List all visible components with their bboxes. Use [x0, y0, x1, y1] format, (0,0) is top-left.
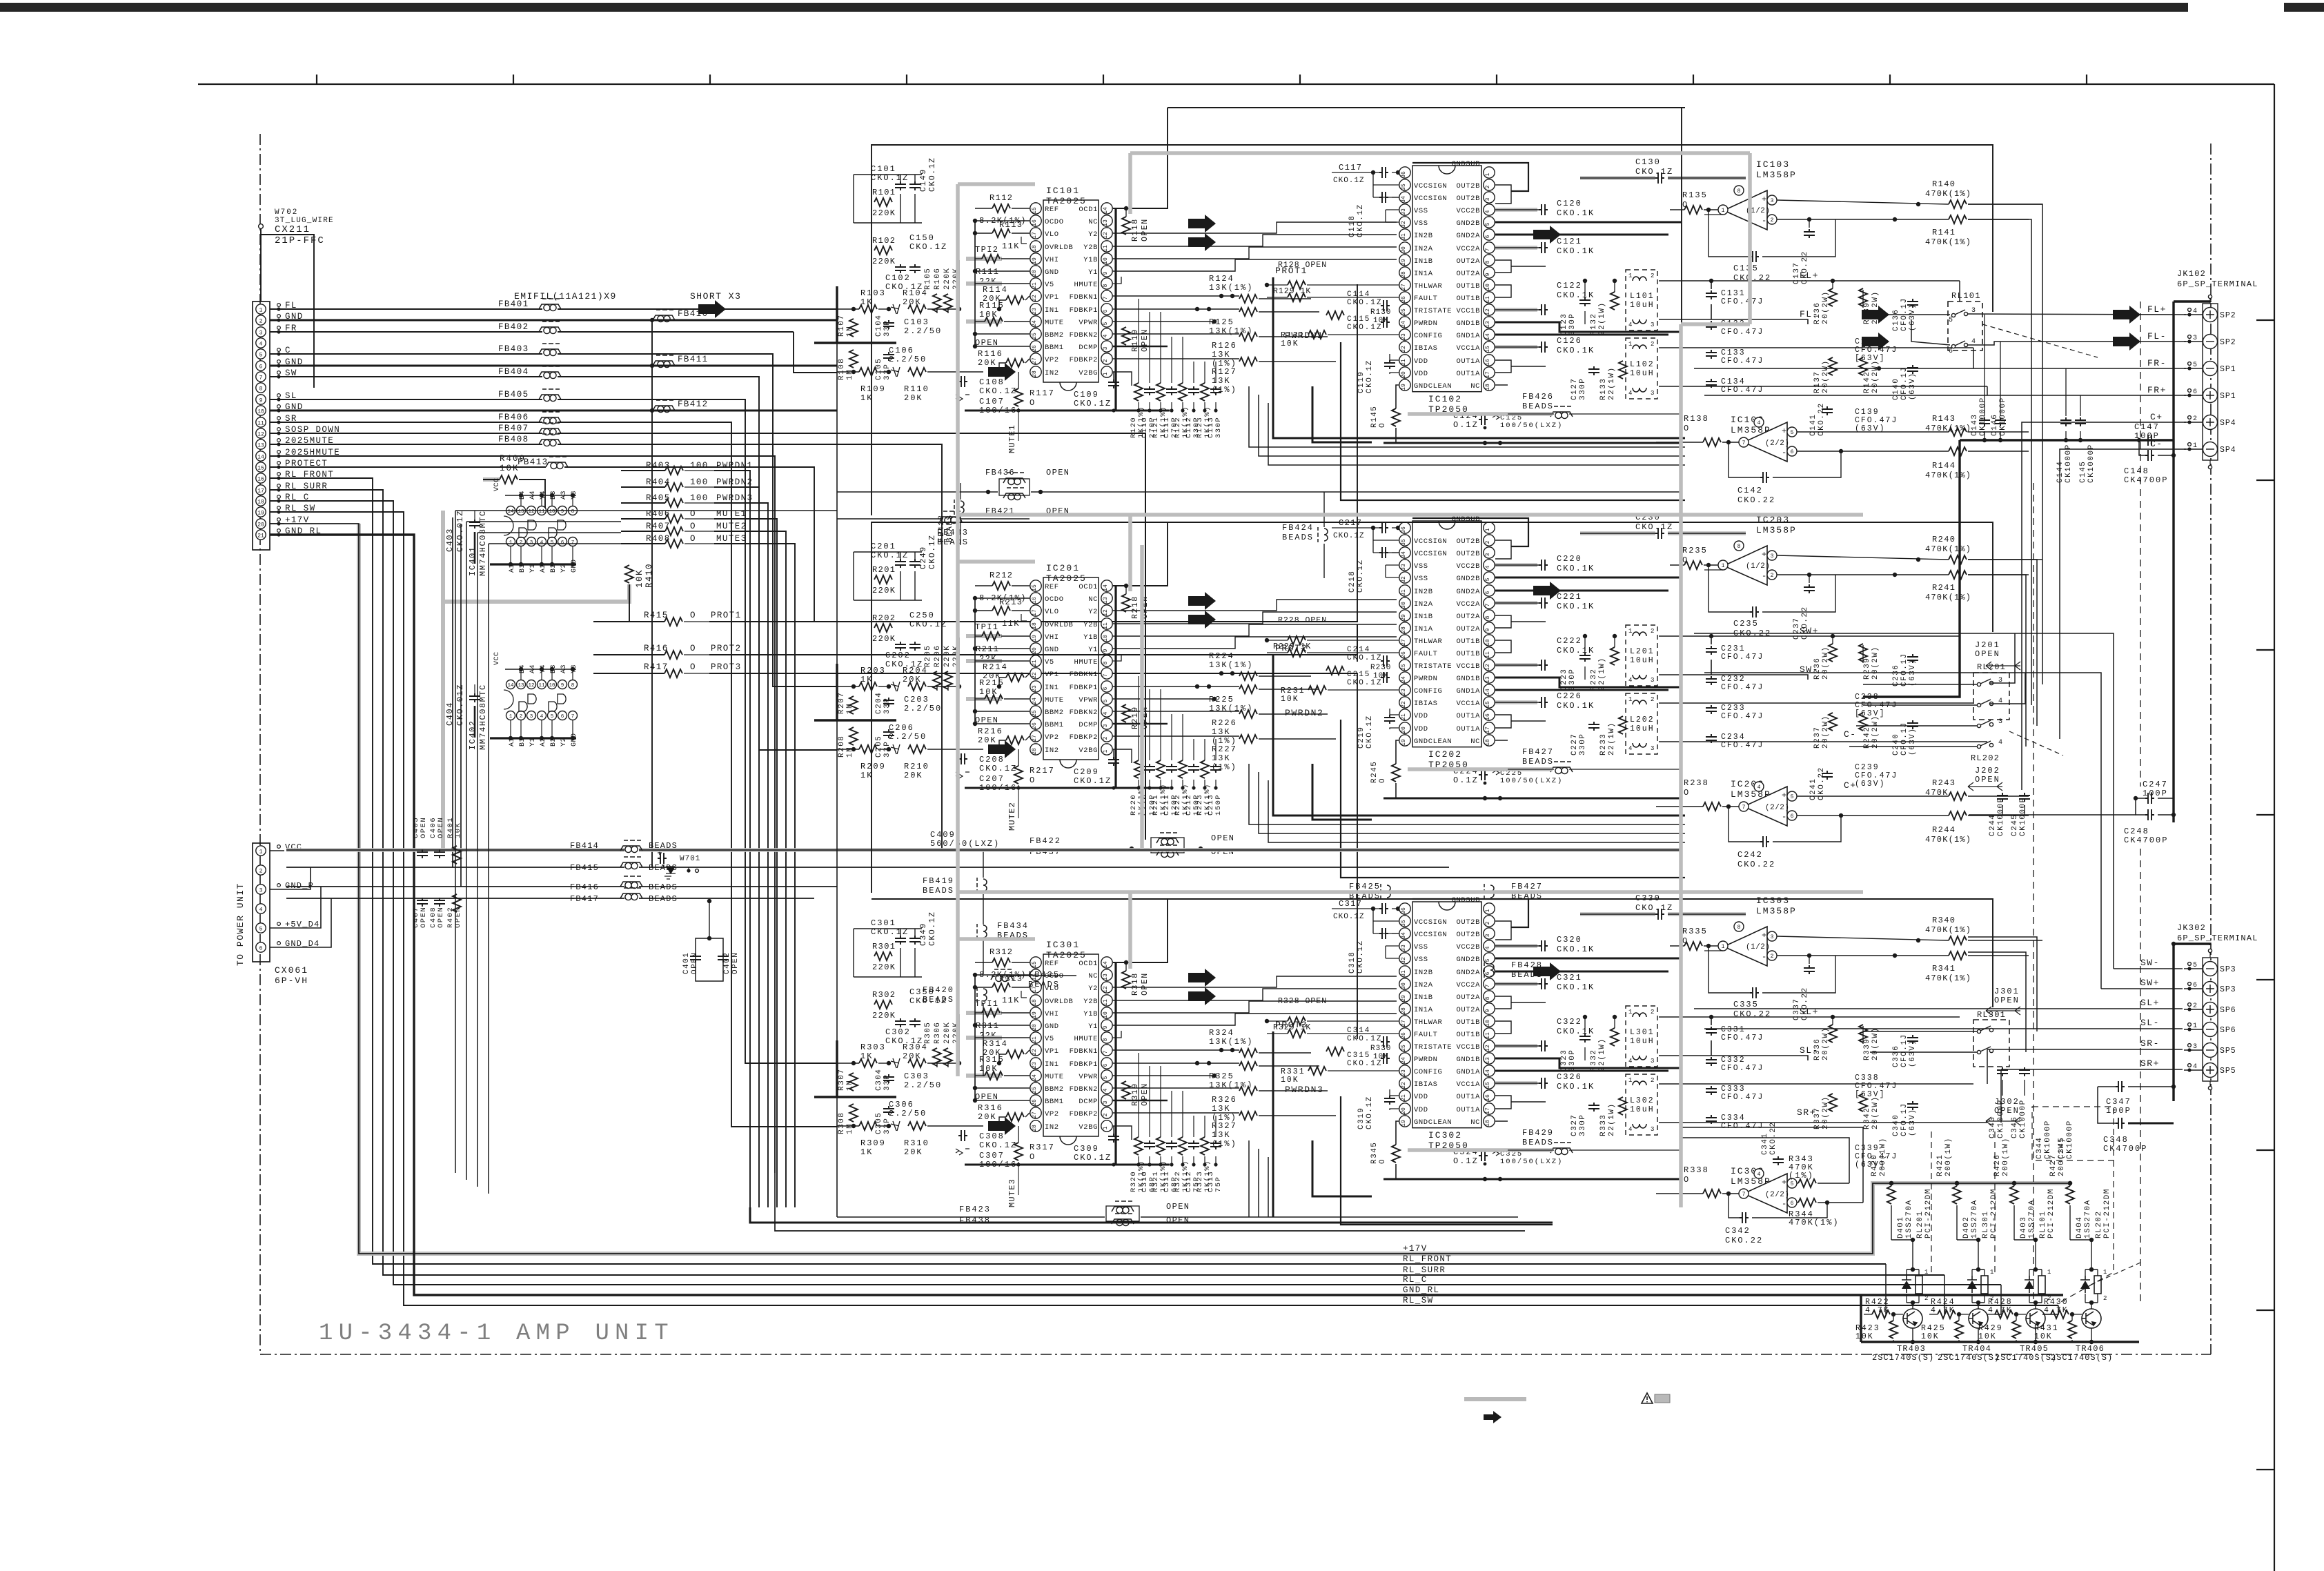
capacitor C320 CKO.1K	[1495, 944, 1537, 948]
svg-text:17: 17	[257, 488, 264, 495]
svg-text:CFO.47J: CFO.47J	[1721, 357, 1764, 366]
svg-text:R403: R403	[646, 461, 671, 471]
ladder C210 120P	[1144, 764, 1155, 773]
OUT2A join 1	[1495, 260, 1511, 273]
IC302 pin 17	[1484, 1103, 1495, 1114]
svg-text:20K: 20K	[903, 1051, 922, 1061]
svg-text:CKO.1Z: CKO.1Z	[979, 386, 1017, 396]
IC102 pin 36	[1399, 167, 1410, 178]
capacitor C322 CKO.1K	[1495, 1044, 1537, 1048]
svg-text:R415: R415	[644, 611, 669, 620]
ladder R123 1K(1%)	[1201, 383, 1209, 401]
IC301 pin 1 V2BG	[1101, 1120, 1112, 1132]
capacitor C125 100/50(LXZ)	[1493, 413, 1499, 419]
IC202 pin 35	[1399, 535, 1410, 546]
CX211 pin 14 stub	[277, 451, 281, 454]
IC102 pin 31	[1399, 229, 1410, 240]
svg-text:MUTE: MUTE	[1045, 319, 1064, 327]
svg-text:220K: 220K	[943, 1022, 952, 1044]
IC201 pin 26 BBM1	[1030, 718, 1041, 729]
svg-text:20(2W): 20(2W)	[1871, 1096, 1880, 1129]
svg-text:15: 15	[1485, 701, 1491, 708]
svg-text:FB406: FB406	[498, 413, 529, 422]
svg-text:NC: NC	[1470, 738, 1480, 746]
cell 4 top join	[2085, 1269, 2098, 1270]
svg-text:V5: V5	[1045, 281, 1054, 289]
capacitor C334 CFO.47J	[1706, 1115, 1717, 1124]
resistor R144 470K	[1949, 447, 1967, 455]
resistor R117 O	[1014, 388, 1023, 406]
IC101 pin 26 BBM1	[1030, 341, 1041, 352]
ferrite bead FB401	[539, 304, 561, 309]
svg-text:IN1: IN1	[1045, 1060, 1059, 1069]
svg-text:1: 1	[1485, 528, 1491, 531]
svg-text:IN1B: IN1B	[1414, 257, 1433, 266]
cell 1 top join	[1907, 1269, 1919, 1270]
svg-text:CKO.22: CKO.22	[1737, 495, 1775, 505]
svg-text:22: 22	[1401, 701, 1407, 708]
svg-text:C121: C121	[1557, 237, 1582, 246]
svg-text:36: 36	[1401, 526, 1407, 533]
svg-text:THLWAR: THLWAR	[1414, 282, 1443, 290]
wire Y2B 3	[1113, 989, 1397, 1000]
CX061 pin bends	[284, 867, 311, 889]
svg-text:1: 1	[1628, 341, 1632, 348]
svg-text:12: 12	[528, 509, 534, 515]
svg-text:FL-: FL-	[1800, 309, 1819, 319]
svg-text:560/50(LXZ): 560/50(LXZ)	[930, 839, 1000, 849]
svg-text:O: O	[690, 611, 696, 620]
svg-text:2: 2	[259, 869, 263, 875]
IC201 pin 4 FDBKN2	[1101, 706, 1112, 717]
svg-text:8: 8	[1485, 615, 1491, 619]
svg-text:C122: C122	[1557, 281, 1582, 290]
wire V2BG 2	[1113, 749, 1132, 763]
svg-text:CKO.1K: CKO.1K	[1557, 208, 1595, 218]
svg-text:OUT1A: OUT1A	[1456, 370, 1480, 378]
CX211 pin 19 stub	[277, 506, 281, 510]
PWRDN1 drop	[1341, 342, 1685, 500]
svg-text:21: 21	[1401, 713, 1407, 720]
svg-text:L202: L202	[1630, 715, 1655, 724]
svg-text:1: 1	[1924, 1269, 1928, 1276]
svg-text:BBM2: BBM2	[1045, 331, 1064, 339]
IC301 pin 13 NC	[1101, 969, 1112, 980]
wire C248 row left	[1969, 814, 2136, 816]
svg-text:36: 36	[1401, 907, 1407, 914]
svg-text:2SC1740S(S): 2SC1740S(S)	[1995, 1353, 2057, 1363]
svg-text:R303: R303	[860, 1043, 886, 1052]
wire MUTE2 riser	[714, 531, 786, 1207]
net FR- wire	[1659, 347, 1973, 348]
CX211 pin 17 circle	[256, 485, 266, 495]
svg-text:17: 17	[1485, 727, 1491, 733]
wire GND2B 2 thick	[1495, 577, 1682, 579]
svg-text:R137: R137	[1813, 371, 1822, 393]
svg-text:27: 27	[1032, 357, 1038, 364]
svg-text:13K: 13K	[1212, 753, 1231, 763]
svg-text:CFO.47J: CFO.47J	[1721, 1064, 1764, 1073]
OCD1 rail drop 1	[1114, 208, 1116, 411]
svg-text:2: 2	[1103, 359, 1109, 362]
svg-text:100/50(LXZ): 100/50(LXZ)	[1500, 422, 1563, 430]
svg-text:CKO.22: CKO.22	[1733, 273, 1771, 283]
IC202 pin 5	[1484, 572, 1495, 583]
opamp feed vertical a	[1968, 204, 2042, 684]
svg-text:R145: R145	[1370, 406, 1379, 428]
MUTE3 bundle to right thin	[775, 1173, 1525, 1231]
wire GND row10	[270, 410, 652, 412]
svg-text:Y1: Y1	[1088, 268, 1098, 277]
IC101 pin 8 HMUTE	[1101, 278, 1112, 289]
svg-text:R201: R201	[872, 565, 896, 575]
svg-text:SP1: SP1	[2220, 392, 2236, 401]
ladder C112 330P	[1188, 386, 1199, 395]
wire GND2B 1 thick	[1495, 221, 1682, 224]
svg-text:R421: R421	[1936, 1154, 1944, 1176]
svg-text:SP5: SP5	[2220, 1067, 2236, 1076]
wire FR row	[270, 331, 542, 333]
capacitor C122 CKO.1K	[1495, 308, 1537, 312]
IC202 pin 12	[1484, 660, 1495, 671]
ladder R121 1K(1%)	[1156, 383, 1165, 401]
IC102 pin 34	[1399, 192, 1410, 203]
IC102 pin 2	[1484, 179, 1495, 190]
wire GND row2	[270, 319, 652, 322]
svg-text:C209: C209	[1074, 767, 1099, 777]
svg-text:13K(1%): 13K(1%)	[1209, 660, 1253, 670]
opamp feed vertical d block2	[1968, 575, 2026, 747]
svg-text:21: 21	[1401, 359, 1407, 366]
IC202 pin 36	[1399, 522, 1410, 533]
IC201 pin 20 GND	[1030, 643, 1041, 654]
IC101 pin 9 Y1	[1101, 266, 1112, 277]
svg-text:R205: R205	[924, 645, 932, 667]
capacitor C120 CKO.1K	[1495, 208, 1537, 212]
IC302 pin 32	[1399, 953, 1410, 964]
svg-text:R124: R124	[1209, 274, 1234, 284]
wire SOSP_DOWN row	[270, 433, 542, 434]
IC202 pin 16	[1484, 709, 1495, 720]
svg-text:MUTE3: MUTE3	[716, 534, 747, 544]
legend gray line	[1464, 1397, 1526, 1401]
svg-text:25: 25	[1401, 308, 1407, 315]
resistor R217 O	[1014, 766, 1023, 784]
svg-text:VCC1A: VCC1A	[1456, 344, 1480, 353]
svg-text:12: 12	[528, 683, 534, 689]
svg-text:13K: 13K	[1212, 376, 1231, 386]
svg-text:+: +	[1782, 1178, 1786, 1187]
svg-text:18: 18	[1485, 739, 1491, 746]
ferrite bead FB412	[653, 406, 675, 411]
IC102 pin 20	[1399, 367, 1410, 378]
svg-text:R407: R407	[646, 522, 671, 531]
svg-text:CKO.01Z: CKO.01Z	[455, 510, 465, 552]
svg-text:17: 17	[1032, 609, 1038, 616]
svg-text:100: 100	[690, 477, 709, 487]
svg-text:8: 8	[1103, 661, 1109, 664]
svg-text:FB405: FB405	[498, 390, 529, 399]
svg-text:R317: R317	[1030, 1143, 1055, 1152]
svg-text:18: 18	[1485, 1120, 1491, 1127]
diag dashed RL202	[2091, 1263, 2140, 1285]
relay RL301 box	[1973, 1020, 2009, 1067]
IC202 pin 30	[1399, 597, 1410, 609]
svg-text:22: 22	[1032, 295, 1038, 302]
svg-text:IN2B: IN2B	[1414, 969, 1433, 977]
svg-text:R335: R335	[1682, 927, 1708, 936]
svg-text:1SS270A: 1SS270A	[1905, 1199, 1913, 1238]
svg-text:+17V: +17V	[1403, 1244, 1428, 1254]
arrow GND2A 3	[1533, 962, 1561, 980]
svg-text:4: 4	[1103, 711, 1109, 715]
svg-text:9: 9	[1103, 271, 1109, 275]
resistor R244 470K	[1949, 811, 1967, 820]
svg-text:CFO.1J: CFO.1J	[1900, 1034, 1909, 1067]
svg-text:VPWR: VPWR	[1079, 696, 1098, 704]
JK102 top lug	[2208, 295, 2212, 298]
relay RL101 link dashed	[1982, 324, 2098, 357]
svg-text:3: 3	[1485, 933, 1491, 937]
svg-text:(2/2): (2/2)	[1765, 439, 1790, 448]
svg-text:GND2A: GND2A	[1456, 969, 1480, 977]
svg-text:FB419: FB419	[923, 876, 954, 886]
capacitor C137 CKO.22	[1804, 229, 1815, 238]
svg-text:TRISTATE: TRISTATE	[1414, 662, 1452, 671]
inter-block bundle 2	[1249, 764, 1685, 824]
IC202 pin 32	[1399, 572, 1410, 583]
net FL+ wire	[1659, 280, 1960, 281]
svg-text:SR-: SR-	[2140, 1038, 2160, 1049]
svg-text:CFO.47J: CFO.47J	[1721, 328, 1764, 337]
svg-text:11K: 11K	[1002, 619, 1020, 629]
relay RL301 contact b	[1977, 1050, 1980, 1054]
svg-text:FB434: FB434	[997, 921, 1029, 931]
IC201 pin 10 Y1B	[1101, 631, 1112, 642]
svg-text:15: 15	[1485, 346, 1491, 353]
wire relay rows J201	[1863, 684, 1978, 685]
svg-text:CK4700P: CK4700P	[2124, 475, 2168, 485]
IC301 pin 10 Y1B	[1101, 1007, 1112, 1018]
svg-text:15: 15	[1032, 961, 1038, 968]
svg-text:MUTE1: MUTE1	[1007, 424, 1017, 453]
svg-text:200(1W): 200(1W)	[1944, 1137, 1953, 1176]
svg-text:20: 20	[1401, 727, 1407, 733]
svg-text:OUT1A: OUT1A	[1456, 712, 1480, 720]
IC102 pin 27	[1399, 279, 1410, 290]
ladder R120 1K(1%)	[1134, 383, 1143, 401]
CX211 pin 18 circle	[256, 496, 266, 506]
svg-text:220K: 220K	[872, 1011, 896, 1020]
svg-text:2.2/50: 2.2/50	[904, 704, 942, 713]
svg-text:13K(1%): 13K(1%)	[1209, 1037, 1253, 1047]
CX211 pin 11 circle	[256, 417, 266, 427]
svg-text:OPEN: OPEN	[437, 907, 445, 928]
svg-text:1: 1	[259, 849, 263, 856]
net SW+ wire	[1659, 635, 1960, 637]
svg-text:36: 36	[1401, 171, 1407, 178]
svg-text:RL_FRONT: RL_FRONT	[1403, 1254, 1452, 1264]
svg-text:GNDCLEAN: GNDCLEAN	[1414, 1118, 1452, 1127]
svg-text:R135: R135	[1682, 190, 1708, 200]
IC301 pin 3 DCMP	[1101, 1095, 1112, 1106]
svg-text:R306: R306	[934, 1022, 942, 1044]
svg-text:20(2W): 20(2W)	[1822, 1027, 1830, 1060]
svg-text:OPEN: OPEN	[420, 907, 428, 928]
svg-text:11: 11	[1485, 296, 1491, 303]
svg-text:MUTE3: MUTE3	[1007, 1178, 1017, 1207]
svg-text:R109: R109	[860, 384, 886, 394]
IC402 bottom rail	[490, 737, 576, 739]
capacitor C148 CK4700P	[2145, 450, 2154, 461]
svg-text:O.1Z: O.1Z	[1453, 420, 1479, 430]
wire BBM2 2	[975, 711, 1030, 712]
svg-text:3: 3	[1651, 745, 1654, 752]
svg-text:3: 3	[1485, 553, 1491, 556]
gray stub V5 3	[966, 1036, 1002, 1040]
svg-text:31: 31	[1401, 233, 1407, 240]
IC301 pin 15 REF	[1030, 957, 1041, 968]
svg-text:330P: 330P	[1568, 669, 1577, 691]
svg-text:R118: R118	[1131, 218, 1140, 241]
wire DCMP 2	[1113, 723, 1168, 725]
svg-text:FR+: FR+	[2147, 385, 2167, 395]
svg-text:TO POWER UNIT: TO POWER UNIT	[235, 882, 246, 966]
svg-text:VCCSIGN: VCCSIGN	[1414, 918, 1447, 927]
IC101 pin 21 V5	[1030, 278, 1041, 289]
svg-text:20(2W): 20(2W)	[1822, 646, 1830, 680]
svg-text:C340: C340	[1892, 1114, 1900, 1136]
ferrite bead FB413	[546, 462, 568, 467]
svg-text:4: 4	[540, 714, 544, 720]
IC302 pin 16	[1484, 1090, 1495, 1101]
svg-text:J301: J301	[1994, 987, 2020, 996]
IC302 pin 20	[1399, 1103, 1410, 1114]
svg-text:VCCSIGN: VCCSIGN	[1414, 195, 1447, 203]
svg-text:FR-: FR-	[2147, 358, 2167, 368]
svg-text:C309: C309	[1074, 1144, 1099, 1154]
svg-text:11: 11	[538, 683, 545, 689]
wire Y2B 1	[1113, 235, 1397, 246]
wire V2BG 1	[1113, 372, 1132, 386]
svg-text:27: 27	[1401, 1020, 1407, 1027]
svg-text:C143: C143	[1971, 414, 1979, 436]
svg-text:19: 19	[1032, 257, 1038, 264]
svg-text:Y2B: Y2B	[1083, 621, 1098, 629]
svg-text:3: 3	[259, 330, 263, 337]
svg-text:C114: C114	[1347, 290, 1370, 299]
svg-text:1: 1	[1103, 372, 1109, 375]
svg-text:O.1Z: O.1Z	[1453, 1156, 1479, 1166]
wire GND2A 3 thick	[1495, 971, 1668, 973]
IC202 pin 7	[1484, 597, 1495, 609]
svg-text:CK1000P: CK1000P	[2019, 797, 2027, 836]
CX211 pin 1 stub	[277, 304, 281, 307]
relay RL201 contact b	[1977, 703, 1980, 707]
svg-text:MM74HC08MTC: MM74HC08MTC	[478, 510, 488, 576]
svg-text:R235: R235	[1682, 546, 1708, 555]
HMUTE hook 2	[1113, 654, 1121, 661]
svg-text:8: 8	[1737, 188, 1741, 195]
resistor R339 20(2W)	[1859, 1025, 1867, 1043]
IC102 pin 19	[1399, 379, 1410, 391]
ruler tick right 4	[2256, 814, 2274, 816]
cell 2 top join	[1972, 1269, 1985, 1270]
svg-text:R324: R324	[1209, 1028, 1234, 1038]
CX211 pin 9 stub	[277, 394, 281, 397]
wire Y2B 2	[1113, 612, 1397, 624]
IC302 pin 29	[1399, 991, 1410, 1002]
svg-text:20(2W): 20(2W)	[1822, 715, 1830, 749]
svg-text:6: 6	[1791, 449, 1794, 455]
svg-text:13: 13	[1485, 321, 1491, 328]
svg-text:28: 28	[1401, 271, 1407, 278]
arrow into IN2 2	[988, 740, 1016, 758]
svg-text:C208: C208	[979, 755, 1005, 764]
svg-text:200(1W): 200(1W)	[1879, 1137, 1887, 1176]
gray frame right vertical	[1748, 153, 1752, 324]
IC201 pin 6 FDBKP1	[1101, 681, 1112, 692]
IC102 pin 12	[1484, 304, 1495, 315]
OUT2A join 2	[1495, 615, 1511, 628]
svg-text:23: 23	[1032, 308, 1038, 315]
OCD1 rail drop 3	[1114, 962, 1116, 1165]
svg-text:20(2W): 20(2W)	[1871, 359, 1880, 393]
wire gnd bus drop	[1863, 440, 1960, 697]
CX211 pin 6 stub	[277, 360, 281, 364]
IC202 pin 24	[1399, 672, 1410, 683]
svg-text:R218: R218	[1131, 595, 1140, 619]
arrow FL+ JK	[2113, 306, 2140, 324]
IC202 pin 25	[1399, 660, 1410, 671]
svg-text:1: 1	[509, 540, 513, 546]
left bus vertical 1	[974, 221, 976, 346]
top ruler line	[198, 83, 2274, 85]
svg-text:J202: J202	[1975, 766, 2000, 775]
svg-text:470K(1%): 470K(1%)	[1925, 835, 1971, 844]
relay RL202 contacts	[1977, 724, 1980, 727]
svg-text:100: 100	[690, 493, 709, 503]
svg-text:3: 3	[1103, 346, 1109, 350]
long vertical x2437	[1681, 108, 1682, 552]
connector CX061 6P-VH outline	[253, 843, 270, 962]
svg-text:CKO.1Z: CKO.1Z	[1074, 1153, 1112, 1163]
left gray branch to R410	[443, 584, 629, 602]
svg-text:C130: C130	[1635, 157, 1661, 167]
svg-text:7: 7	[1103, 673, 1109, 677]
JK102 terminal SP2 pin 3	[2203, 335, 2218, 349]
svg-text:CKO.1Z: CKO.1Z	[1366, 359, 1374, 393]
svg-text:BEADS: BEADS	[1282, 533, 1314, 542]
svg-text:LM358P: LM358P	[1756, 906, 1797, 916]
ladder R322 1K(1%)	[1179, 1137, 1187, 1155]
net SL- wire	[1659, 1055, 1711, 1056]
svg-text:VCC2B: VCC2B	[1456, 562, 1480, 571]
cell 2 emitter to rail	[1978, 1328, 1979, 1342]
JK102 terminal SP2 pin 4	[2203, 308, 2218, 322]
svg-text:CKO.1K: CKO.1K	[1557, 346, 1595, 355]
svg-text:R133: R133	[1599, 378, 1608, 400]
svg-text:IN1: IN1	[1045, 306, 1059, 315]
IC202 pin 34	[1399, 547, 1410, 558]
svg-text:CK1000P: CK1000P	[1997, 797, 2005, 836]
svg-text:R126: R126	[1212, 341, 1237, 350]
svg-text:CKO.22: CKO.22	[1801, 250, 1809, 284]
svg-text:18: 18	[257, 500, 264, 506]
svg-text:R416: R416	[644, 644, 669, 653]
svg-text:24: 24	[1401, 321, 1407, 328]
svg-text:14: 14	[1485, 689, 1491, 695]
